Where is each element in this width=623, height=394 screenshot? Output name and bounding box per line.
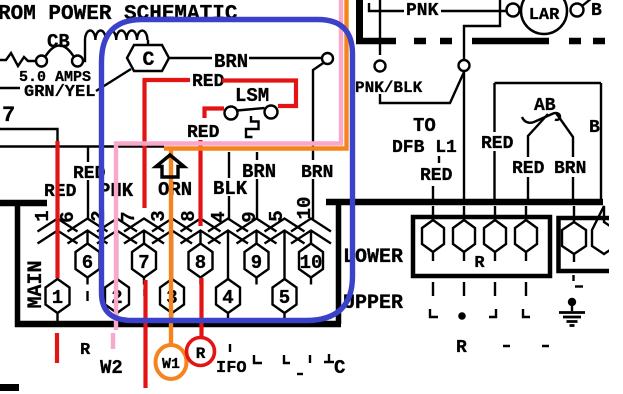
wire from left edge into pin 1 [0,129,58,148]
svg-text:RED: RED [187,123,220,143]
pin 5 hexagon [273,279,297,321]
connector LOWER box [413,217,550,276]
svg-text:R: R [196,345,206,363]
small dash next to pin 7 below [143,289,145,296]
wire BRN right edge down [600,83,602,199]
wire pin 6 vertical [87,147,89,219]
pin 1 hexagon [46,279,70,321]
label PNK top [404,1,440,17]
svg-text:4: 4 [208,211,230,222]
svg-text:RED: RED [420,166,453,186]
svg-text:9: 9 [239,211,261,222]
pin 9 hexagon [245,244,269,285]
pink wire bottom stub [111,333,115,349]
svg-text:RED: RED [192,72,225,92]
svg-text:R: R [80,341,91,360]
connector MAIN top-left corner bar [0,200,47,207]
wire BRN to node [249,57,322,59]
switch LSM blade [237,108,265,111]
svg-text:6: 6 [82,252,93,274]
pin hexagon 495 [484,220,506,261]
label BRN under AB with white back [552,157,588,175]
switch LSM contact right [265,106,278,119]
svg-text:ORN: ORN [158,179,192,201]
svg-text:PNK: PNK [406,1,439,21]
highlight orange circle W1 [156,345,187,379]
svg-text:1: 1 [32,210,54,221]
pin stub 433 [432,186,434,220]
white scan margin right [609,0,623,394]
connector MAIN bottom bar [15,321,341,328]
wire CB to coil [83,40,85,61]
svg-text:3: 3 [148,210,170,221]
wire AB right leg to pin [572,177,574,199]
svg-text:BRN: BRN [214,51,248,73]
switch LSM linkage zigzag [246,116,259,137]
chevrons for all pin columns [38,219,332,280]
label RED row A with white back [71,162,106,180]
dashes under LOWER box [433,282,526,296]
chevrons pin 9 [237,219,277,244]
switch AB box top wire [495,82,602,84]
ground wire label GRN/YEL [0,87,20,89]
node circle end of BRN wire [322,53,333,64]
svg-text:4: 4 [222,287,233,309]
black mark bottom left [0,384,19,391]
small dash bottom middle [297,373,303,375]
chevrons pin 5 [265,219,305,280]
lamp contact right [571,4,584,17]
red wire pin 1 [55,141,59,278]
svg-text:W2: W2 [100,357,123,379]
label RED right column with white back [479,132,514,151]
red wire pin 8 lower segment [199,278,203,336]
chevrons pin 1 [38,219,78,280]
tick under DFB L1 [438,156,440,163]
wire PNK/BLK elbow to node [380,72,464,103]
svg-text:TO: TO [413,115,436,137]
chevrons pin 7 [124,219,164,244]
corner dashes under LOWER box [430,309,530,317]
label BRN row A first with white back [240,160,277,179]
node circle right [459,60,470,71]
label BRN row A second with white back [299,160,335,179]
pin hexagon 574 [562,222,586,262]
horizontal bus wire at y 146 [0,145,164,147]
thick bus bar across right side [326,199,603,206]
svg-text:R: R [474,254,485,273]
red wire pin 1 bottom stub [55,333,59,363]
pin hexagon 433 [422,220,444,261]
svg-text:GRN/YEL: GRN/YEL [24,83,95,102]
chevrons pin 6 [68,219,108,244]
circuit breaker CB contact 2 [72,56,83,67]
chevrons pin 3 [152,219,192,280]
pin 4 hexagon [216,279,240,321]
lamp contact left [507,4,520,17]
switch LSM contact left [225,107,238,120]
connector MAIN right wall [336,202,342,324]
red wire LSM left stub [205,109,225,119]
label RED under AB with white back [510,157,545,175]
top right thick horizontal bar [356,38,396,45]
tick under right box hexagon [572,275,574,281]
pin 2 hexagon [105,279,129,321]
svg-text:BRN: BRN [554,159,586,179]
orange wire vertical and horizontal [164,0,347,346]
wire stub to PNK label [369,3,404,11]
inductor coil [85,30,147,40]
ground symbol [568,298,576,306]
circuit breaker CB contact 1 [36,56,47,67]
tiny dashes bottom right [503,345,549,347]
wire pin 9 vertical [256,152,258,219]
svg-text:7: 7 [138,252,149,274]
pin 3 hexagon [160,279,184,321]
thick dashed cutaway line [414,38,605,45]
svg-text:BRN: BRN [242,161,276,183]
svg-text:10: 10 [300,252,323,274]
pin hexagon 526 [515,220,537,261]
svg-text:RED: RED [512,159,545,179]
dash under right box [575,285,583,287]
wire from node down to pin 10 [313,63,324,220]
svg-text:5: 5 [279,287,290,309]
svg-text:LAR: LAR [529,6,560,25]
svg-text:9: 9 [251,252,262,274]
svg-text:PNK/BLK: PNK/BLK [355,79,423,97]
wire pin 4 vertical [228,152,230,219]
pin stub 495 [494,206,496,220]
wire coil to connector C [147,40,149,45]
wire PNK vertical [379,0,381,55]
pink wire vertical and horizontal [116,0,341,330]
svg-text:BRN: BRN [301,163,333,183]
diagonal wire GRN/YEL to connector C [96,69,131,91]
svg-text:DFB L1: DFB L1 [392,138,457,158]
label BLK row B with white back [211,178,249,196]
red wire pin 8 upper segment [198,140,202,226]
small dash below pin 6 stub [86,291,88,301]
svg-text:B: B [589,118,600,138]
connector C hexagon [127,45,169,71]
wire AB left leg to pin [527,177,529,199]
svg-text:1: 1 [52,287,63,309]
wire RED right column [493,83,495,199]
pin hexagon 604 partial [592,206,616,254]
red wire from C down and bus [142,80,146,208]
pin 6 hexagon [76,244,100,285]
chevrons pin 4 [208,219,248,280]
svg-text:C: C [334,357,345,379]
highlight blue rounded rectangle [102,20,353,321]
pin stub 574 [573,206,575,222]
junction dot [458,312,466,320]
corner dashes to C [254,354,334,363]
node circle PNK/BLK [375,61,386,72]
svg-text:C: C [142,49,154,72]
switch AB left leg [528,114,548,157]
svg-text:7: 7 [2,103,15,128]
pin stub 526 [525,206,527,220]
chevrons pin 10 [291,219,331,244]
wire from left edge to circuit breaker [0,53,36,66]
svg-text:10: 10 [294,197,316,220]
switch AB right leg [556,113,573,157]
red wire pin 7 lower segment [143,280,147,388]
lamp LAR circle [521,0,567,34]
svg-text:W1: W1 [162,356,180,373]
highlight red circle R [187,338,215,366]
pin 8 hexagon [189,244,213,285]
connector UPPER right box [559,218,612,271]
top right thick vertical bar [356,0,363,43]
svg-text:LSM: LSM [235,85,269,107]
pin stub 464 [463,206,465,220]
svg-text:8: 8 [195,252,206,274]
connector MAIN left wall [15,200,21,327]
svg-text:CB: CB [47,31,70,53]
pin 10 hexagon [299,244,323,285]
switch AB curve [522,113,560,123]
wire BRN from connector C [169,57,212,59]
wire node up and right [464,0,500,60]
chevrons pin 8 [181,219,221,244]
svg-text:B: B [591,1,602,21]
chevrons pin 2 [97,219,137,280]
svg-text:R: R [456,338,467,358]
svg-text:RED: RED [44,182,77,202]
circuit breaker CB arc [45,46,74,58]
tick above IFO [229,344,231,352]
pin hexagon 464 [453,220,475,261]
wire PNK to lamp [441,10,506,12]
svg-text:RED: RED [481,134,514,154]
wire node down to pin [463,71,465,199]
pin 7 hexagon [132,244,156,285]
diagonal wire from right contact [582,0,592,6]
black arrow icon [156,155,184,177]
svg-text:IFO: IFO [216,359,247,378]
